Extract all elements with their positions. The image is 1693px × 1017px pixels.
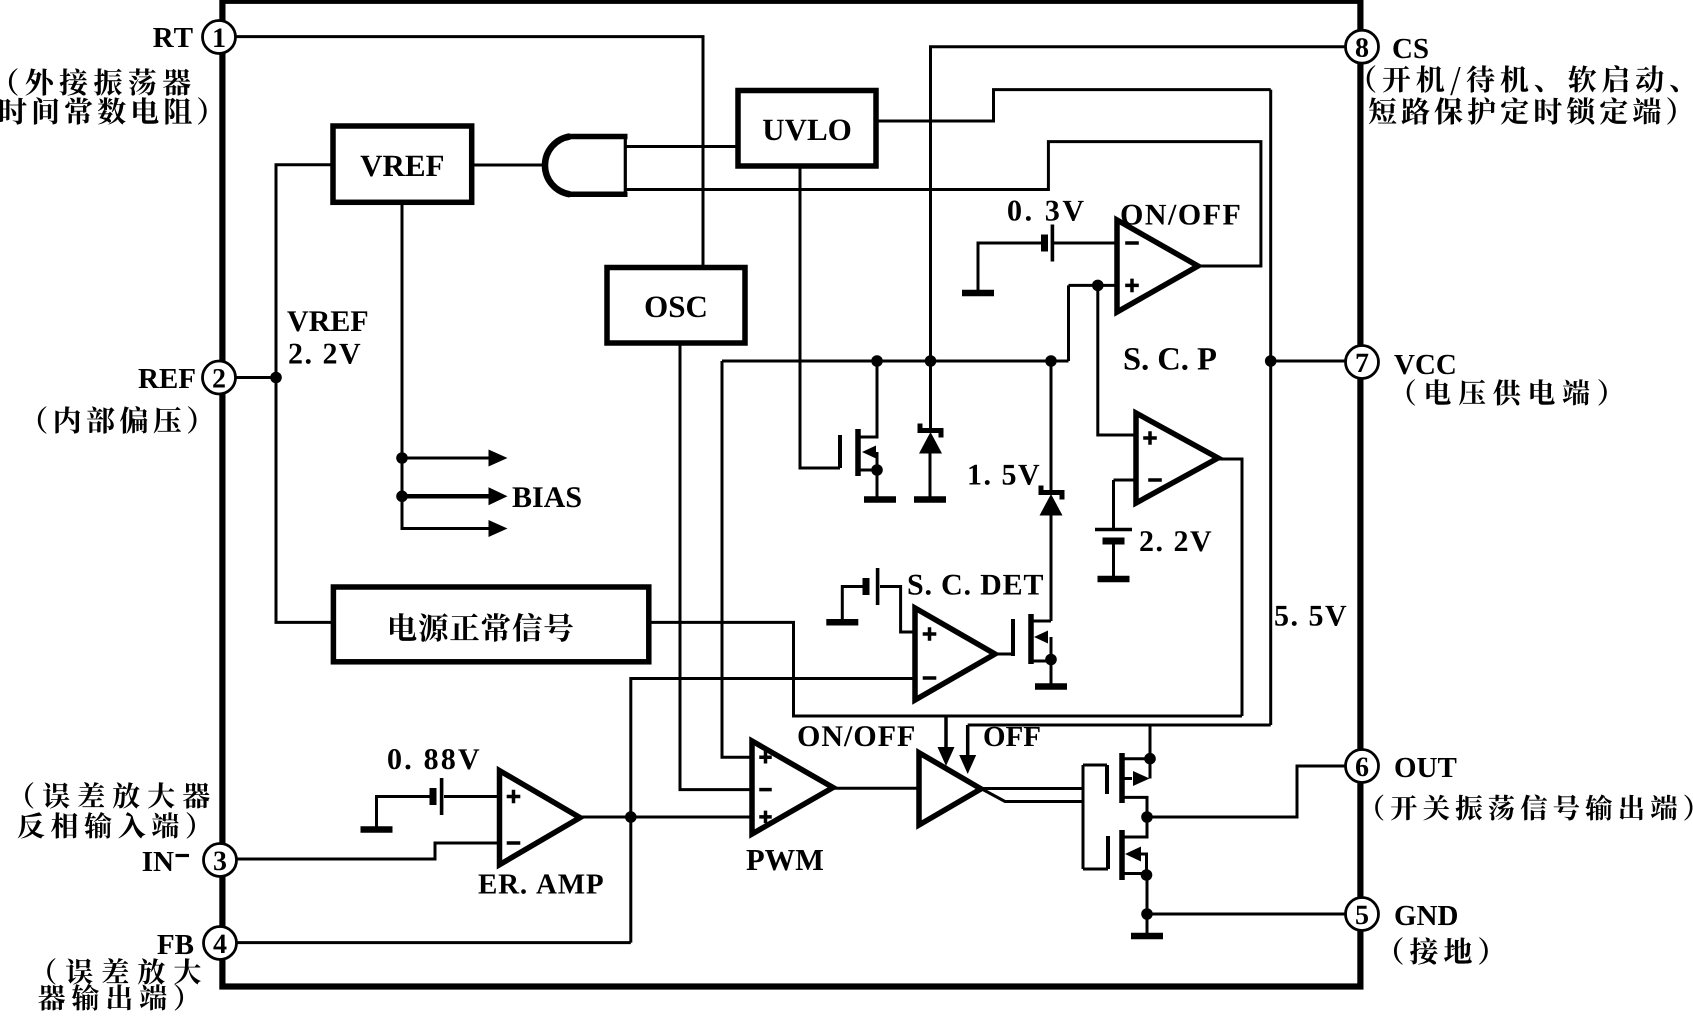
wire S.C.P minus to battery <box>1112 480 1115 529</box>
label BIAS <box>513 487 581 507</box>
annotation pin1 (外接振荡器 时间常数电阻) <box>0 68 207 124</box>
block OSC <box>607 268 745 344</box>
annotation pin6 (开关振荡信号输出端) <box>1375 794 1692 820</box>
wire CS pin8 to VCC bus <box>931 47 1363 361</box>
wire plus node down to VCC bus <box>1067 285 1070 361</box>
ground under 2.2V battery <box>1098 576 1130 583</box>
wire S.C.DET plus input <box>880 587 915 633</box>
BIAS arrow lower <box>489 520 508 537</box>
junction BIAS stem middle <box>396 491 408 503</box>
wire UVLO output to 5.5V line <box>876 90 1271 121</box>
label PWM <box>747 850 824 871</box>
label S.C.DET <box>909 575 1043 595</box>
wire VREF to AND gate <box>472 164 548 167</box>
label S.C.P <box>1125 348 1216 370</box>
label OFF at buffer <box>984 727 1039 747</box>
label 1.5V <box>969 465 1039 485</box>
wire ER.AMP plus input <box>444 795 500 798</box>
junction 5.5V line / VCC pin7 <box>1265 355 1277 367</box>
block power-good (电源正常信号) <box>333 587 648 662</box>
battery 0.88V <box>433 778 442 815</box>
junction VCC bus / Q1 drain <box>871 355 883 367</box>
BIAS arrow middle <box>402 487 508 505</box>
transistor Q1 <box>840 361 883 497</box>
label ON/OFF top <box>1122 205 1240 225</box>
wire VCC bus <box>722 360 1069 363</box>
transistor Q3 <box>1083 753 1156 817</box>
wire 2.2V battery to ground <box>1112 541 1115 577</box>
pin 5 GND <box>1346 898 1458 931</box>
ground under S.C.DET battery <box>826 619 858 626</box>
wire 0.88V battery to ground <box>377 797 434 828</box>
label 0.3V <box>1008 201 1084 222</box>
junction VCC bus / D2 <box>1045 355 1057 367</box>
wire RT pin1 to OSC top <box>219 37 703 268</box>
junction ON/OFF plus node <box>1092 280 1104 292</box>
block VREF <box>333 126 472 202</box>
pin 1 RT <box>153 21 235 54</box>
junction BIAS stem upper <box>396 452 408 464</box>
wire totem-pole gate bus <box>1082 765 1085 869</box>
wire PWM output to buffer <box>833 787 919 790</box>
wire power-good output to PWM enable line <box>649 622 1242 716</box>
junction REF node <box>270 372 282 384</box>
transistor Q4 <box>1083 817 1152 881</box>
ground under D1 <box>914 496 946 503</box>
wire VCC bus to PWM top input <box>722 361 752 757</box>
transistor Q2 <box>995 614 1057 684</box>
wire S.C.P output <box>1218 459 1242 716</box>
wire OUT pin6 to totem-pole midpoint <box>1147 766 1362 817</box>
op-amp ER.AMP <box>500 771 581 865</box>
pin 3 IN- <box>143 844 237 877</box>
junction GND node <box>1141 908 1153 920</box>
label 5.5V <box>1275 606 1346 626</box>
label 2.2V <box>1140 531 1211 551</box>
wire 5.5V node to VCC pin7 <box>1272 360 1362 363</box>
ground under 0.3V battery <box>962 290 994 297</box>
label 0.88V <box>388 749 479 770</box>
wire plus node to S.C.P plus input <box>1098 285 1136 435</box>
OFF arrow into buffer <box>959 725 976 774</box>
junction FB node <box>625 811 637 823</box>
battery S.C.DET reference <box>866 568 878 605</box>
wire ON/OFF comparator minus input <box>1054 242 1117 245</box>
comparator S.C.DET <box>915 608 995 700</box>
ground under Q2 <box>1035 683 1067 690</box>
buffer <box>919 753 981 825</box>
annotation pin3 (误差放大器 反相输入端) <box>18 782 210 839</box>
wire GND node stub down <box>1146 875 1149 934</box>
junction VCC bus / CS line <box>925 355 937 367</box>
annotation pin4 (误差放大 器输出端) <box>38 958 200 1011</box>
ground under Q1 <box>864 496 896 503</box>
ground under 0.88V battery <box>361 826 393 833</box>
IC boundary box <box>222 1 1360 987</box>
battery 2.2V <box>1095 530 1132 542</box>
zener diode D1 <box>919 361 942 497</box>
pin 6 OUT <box>1346 750 1457 783</box>
wire AND gate lower output to ON/OFF comparator output <box>625 142 1261 266</box>
wire UVLO bottom to Q1 gate <box>800 166 840 468</box>
block UVLO <box>738 91 876 167</box>
wire S.C.P minus input <box>1114 479 1137 482</box>
wire FB riser to S.C.DET minus <box>631 679 915 943</box>
annotation pin7 (电压供电端) <box>1407 379 1607 406</box>
junction totem-pole midpoint <box>1141 811 1153 823</box>
wire S.C.DET battery to ground <box>842 587 866 621</box>
pin 2 REF <box>139 361 236 394</box>
wire VREF bottom BIAS stem <box>402 202 500 528</box>
pin 4 FB <box>157 927 236 960</box>
wire 5.5V vertical <box>1269 90 1272 725</box>
wire ER.AMP output to PWM <box>580 816 752 819</box>
label ON/OFF at buffer <box>799 726 914 746</box>
wire ON/OFF comparator plus net <box>1069 284 1118 287</box>
wire OSC output to PWM <box>680 343 752 790</box>
BIAS arrow upper <box>402 450 508 467</box>
ground under output MOSFET Q4 <box>1131 933 1163 940</box>
ON/OFF arrow into buffer <box>938 716 955 766</box>
wire 5.5V to OFF arrow and Q3 drain <box>968 724 1271 727</box>
wire GND node to pin5 <box>1147 913 1362 916</box>
pin 7 VCC <box>1346 346 1455 379</box>
pin 8 CS <box>1346 30 1428 63</box>
annotation pin2 (内部偏压) <box>38 406 197 434</box>
wire buffer output to gate bus <box>981 789 1083 802</box>
comparator ON/OFF <box>1117 220 1198 312</box>
zener diode D2 <box>1040 361 1063 621</box>
wire 0.3V battery to ground <box>978 243 1045 291</box>
comparator PWM <box>752 741 833 834</box>
wire AND gate upper output to UVLO <box>625 145 738 148</box>
wire REF pin2 stub <box>219 376 276 379</box>
wire Q3 drain riser <box>1149 725 1152 759</box>
AND gate <box>545 137 628 195</box>
label ER.AMP <box>479 874 603 894</box>
wire VREF left to REF pin2 and power-good block <box>276 165 333 623</box>
battery 0.3V <box>1045 225 1053 262</box>
annotation pin8 (开机/待机、软启动、短路保护定时锁定端) <box>1367 65 1678 125</box>
label VREF 2.2V <box>287 311 367 364</box>
wire FB pin4 to FB node <box>219 941 631 944</box>
annotation pin5 (接地) <box>1394 937 1488 964</box>
comparator S.C.P <box>1136 413 1218 503</box>
wire IN- pin3 to ER.AMP <box>219 843 500 859</box>
